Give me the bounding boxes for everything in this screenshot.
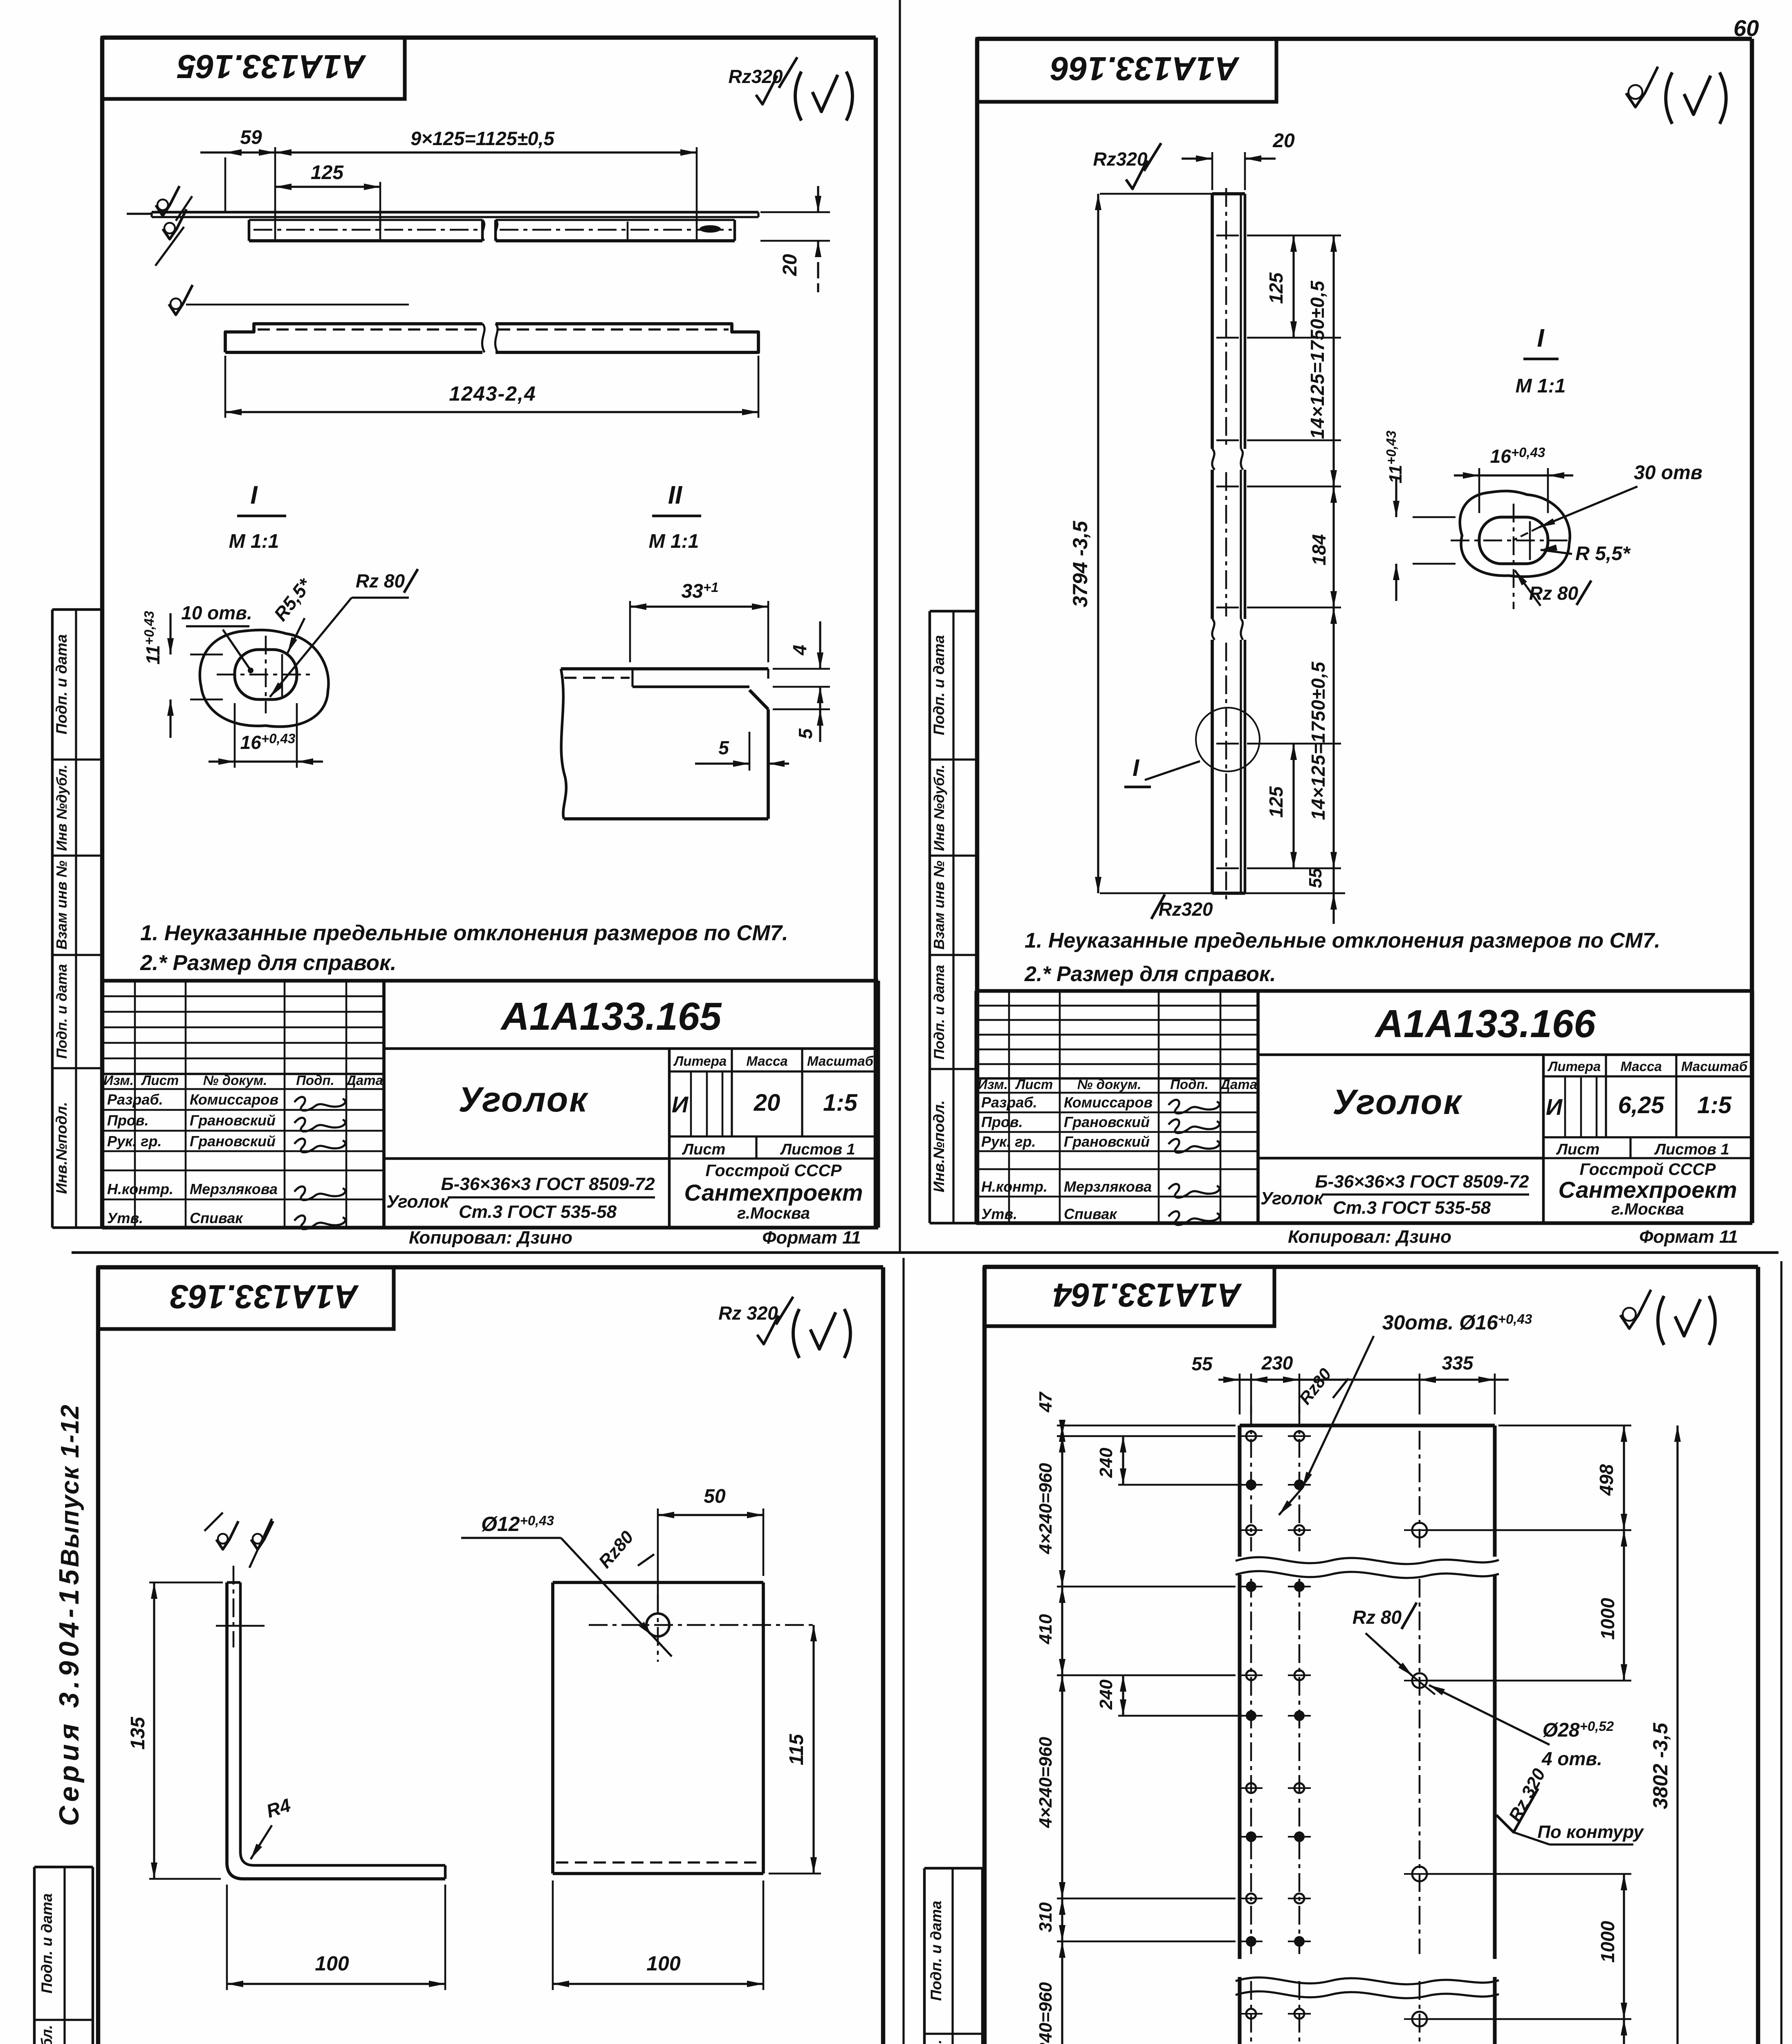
svg-text:Ст.3 ГОСТ 535-58: Ст.3 ГОСТ 535-58 xyxy=(1333,1198,1491,1218)
svg-text:4 отв.: 4 отв. xyxy=(1541,1748,1602,1769)
svg-text:Комиссаров: Комиссаров xyxy=(1064,1094,1153,1111)
svg-text:Разраб.: Разраб. xyxy=(981,1094,1037,1111)
svg-text:5: 5 xyxy=(795,728,816,739)
svg-text:50: 50 xyxy=(704,1486,726,1507)
svg-text:410: 410 xyxy=(1036,1614,1056,1645)
svg-text:Сантехпроект: Сантехпроект xyxy=(684,1180,863,1206)
svg-text:Лист: Лист xyxy=(1556,1141,1599,1158)
svg-text:Утв.: Утв. xyxy=(981,1206,1017,1222)
svg-text:№ докум.: № докум. xyxy=(1077,1077,1142,1092)
svg-text:5: 5 xyxy=(718,737,729,758)
svg-text:Б-36×36×3 ГОСТ 8509-72: Б-36×36×3 ГОСТ 8509-72 xyxy=(441,1174,655,1194)
svg-text:Н.контр.: Н.контр. xyxy=(107,1181,173,1197)
svg-text:Взам инв №: Взам инв № xyxy=(53,861,70,950)
svg-text:Изм.: Изм. xyxy=(103,1073,134,1088)
svg-text:230: 230 xyxy=(1261,1352,1293,1374)
svg-text:Разраб.: Разраб. xyxy=(107,1091,163,1108)
svg-text:6,25: 6,25 xyxy=(1618,1092,1665,1118)
svg-text:100: 100 xyxy=(315,1952,349,1975)
svg-text:Формат 11: Формат 11 xyxy=(762,1228,861,1248)
svg-text:240: 240 xyxy=(1096,1448,1116,1478)
svg-text:59: 59 xyxy=(240,127,262,148)
svg-text:240: 240 xyxy=(1096,1679,1116,1710)
svg-text:4×240=960: 4×240=960 xyxy=(1036,1982,1056,2044)
svg-text:R 5,5*: R 5,5* xyxy=(1575,543,1631,565)
svg-text:3794 -3,5: 3794 -3,5 xyxy=(1069,520,1092,607)
svg-text:Подп. и дата: Подп. и дата xyxy=(931,635,947,735)
svg-text:Комиссаров: Комиссаров xyxy=(190,1091,278,1108)
svg-text:14×125=1750±0,5: 14×125=1750±0,5 xyxy=(1308,661,1329,820)
svg-text:100: 100 xyxy=(646,1952,681,1975)
svg-text:Rz320: Rz320 xyxy=(1159,899,1213,920)
svg-text:1000: 1000 xyxy=(1597,1921,1618,1963)
svg-text:55: 55 xyxy=(1191,1353,1213,1374)
svg-text:Формат 11: Формат 11 xyxy=(1639,1227,1738,1247)
svg-text:Мерзлякова: Мерзлякова xyxy=(1064,1178,1152,1195)
svg-text:Сантехпроект: Сантехпроект xyxy=(1558,1177,1737,1203)
svg-text:Масштаб: Масштаб xyxy=(1681,1059,1748,1074)
svg-text:М 1:1: М 1:1 xyxy=(229,531,279,552)
svg-text:135: 135 xyxy=(127,1717,149,1750)
svg-text:20: 20 xyxy=(754,1089,780,1116)
svg-text:Серия 3.904-15: Серия 3.904-15 xyxy=(54,1565,85,1826)
svg-text:Лист: Лист xyxy=(141,1073,179,1088)
svg-text:4: 4 xyxy=(789,645,810,656)
svg-text:47: 47 xyxy=(1036,1391,1056,1412)
svg-text:10 отв.: 10 отв. xyxy=(181,602,252,623)
svg-text:Инв.№дубл.: Инв.№дубл. xyxy=(38,2025,55,2044)
svg-text:Листов 1: Листов 1 xyxy=(780,1141,855,1158)
svg-text:Дата: Дата xyxy=(345,1073,383,1088)
svg-text:По контуру: По контуру xyxy=(1537,1822,1644,1842)
svg-text:Грановский: Грановский xyxy=(190,1133,276,1150)
svg-text:А1А133.163: А1А133.163 xyxy=(170,1278,359,1315)
svg-text:Инв.№подл.: Инв.№подл. xyxy=(53,1102,70,1194)
svg-text:20: 20 xyxy=(779,254,801,276)
svg-text:9×125=1125±0,5: 9×125=1125±0,5 xyxy=(410,128,555,149)
svg-text:И: И xyxy=(1546,1094,1563,1120)
svg-text:Взам инв №: Взам инв № xyxy=(931,861,947,950)
svg-text:II: II xyxy=(668,481,683,509)
svg-text:Спивак: Спивак xyxy=(1064,1206,1117,1222)
svg-text:Изм.: Изм. xyxy=(978,1077,1008,1092)
svg-text:1000: 1000 xyxy=(1597,1598,1618,1640)
svg-text:Утв.: Утв. xyxy=(107,1210,143,1226)
svg-text:Спивак: Спивак xyxy=(190,1210,243,1226)
svg-text:I: I xyxy=(1133,755,1140,781)
svg-text:Подп. и дата: Подп. и дата xyxy=(53,634,70,734)
svg-text:Инв.№подл.: Инв.№подл. xyxy=(931,1100,947,1192)
svg-text:Мерзлякова: Мерзлякова xyxy=(190,1181,278,1197)
svg-text:4×240=960: 4×240=960 xyxy=(1036,1737,1056,1828)
svg-text:Рук. гр.: Рук. гр. xyxy=(981,1133,1036,1150)
svg-text:А1А133.165: А1А133.165 xyxy=(177,48,366,85)
svg-text:Пров.: Пров. xyxy=(981,1114,1023,1130)
svg-text:Инв.№дубл.: Инв.№дубл. xyxy=(928,2040,944,2044)
svg-text:Масштаб: Масштаб xyxy=(807,1053,874,1069)
svg-text:Выпуск 1-12: Выпуск 1-12 xyxy=(56,1404,84,1567)
svg-text:Копировал: Дзино: Копировал: Дзино xyxy=(409,1228,572,1248)
svg-text:Литера: Литера xyxy=(1548,1059,1601,1074)
svg-text:I: I xyxy=(250,481,258,509)
svg-text:Инв №дубл.: Инв №дубл. xyxy=(54,764,70,851)
svg-text:Подп.: Подп. xyxy=(296,1073,334,1088)
svg-text:г.Москва: г.Москва xyxy=(1611,1200,1684,1218)
svg-text:Подп. и дата: Подп. и дата xyxy=(931,965,947,1060)
svg-text:Литера: Литера xyxy=(673,1053,727,1069)
svg-text:Ст.3 ГОСТ 535-58: Ст.3 ГОСТ 535-58 xyxy=(459,1202,617,1222)
svg-text:Подп. и дата: Подп. и дата xyxy=(928,1901,944,2001)
svg-text:30 отв: 30 отв xyxy=(1634,462,1702,484)
svg-text:Масса: Масса xyxy=(1620,1059,1662,1074)
svg-text:Листов 1: Листов 1 xyxy=(1654,1141,1729,1158)
svg-text:Масса: Масса xyxy=(746,1053,787,1069)
svg-text:310: 310 xyxy=(1036,1902,1056,1932)
svg-text:Уголок: Уголок xyxy=(1332,1083,1463,1122)
svg-text:Подп. и дата: Подп. и дата xyxy=(38,1893,55,1993)
svg-text:Грановский: Грановский xyxy=(190,1112,276,1129)
svg-text:А1А133.165: А1А133.165 xyxy=(500,995,722,1038)
svg-text:1. Неуказанные предельные откл: 1. Неуказанные предельные отклонения раз… xyxy=(140,921,788,945)
svg-text:М 1:1: М 1:1 xyxy=(1516,375,1566,397)
svg-text:3802 -3,5: 3802 -3,5 xyxy=(1649,1722,1672,1809)
svg-text:Rz 320: Rz 320 xyxy=(718,1302,778,1324)
svg-text:335: 335 xyxy=(1442,1352,1474,1374)
svg-text:Госстрой СССР: Госстрой СССР xyxy=(706,1161,842,1180)
svg-text:Дата: Дата xyxy=(1219,1077,1257,1092)
svg-text:125: 125 xyxy=(1265,272,1287,304)
svg-text:№ докум.: № докум. xyxy=(203,1073,267,1088)
svg-text:М 1:1: М 1:1 xyxy=(649,531,699,552)
svg-text:Госстрой СССР: Госстрой СССР xyxy=(1580,1160,1716,1179)
svg-text:Подп. и дата: Подп. и дата xyxy=(54,964,70,1059)
svg-text:2.* Размер для справок.: 2.* Размер для справок. xyxy=(1024,962,1276,986)
svg-text:Rz 80: Rz 80 xyxy=(356,570,405,592)
svg-text:498: 498 xyxy=(1596,1464,1617,1496)
svg-text:125: 125 xyxy=(311,162,344,184)
svg-text:Грановский: Грановский xyxy=(1064,1133,1150,1150)
svg-text:Б-36×36×3 ГОСТ 8509-72: Б-36×36×3 ГОСТ 8509-72 xyxy=(1315,1172,1529,1192)
svg-text:125: 125 xyxy=(1265,786,1287,818)
svg-text:А1А133.166: А1А133.166 xyxy=(1374,1002,1596,1046)
svg-text:115: 115 xyxy=(786,1733,807,1765)
svg-text:А1А133.166: А1А133.166 xyxy=(1050,50,1240,87)
svg-text:Уголок: Уголок xyxy=(386,1192,450,1212)
svg-text:Копировал: Дзино: Копировал: Дзино xyxy=(1288,1227,1451,1247)
svg-text:Лист: Лист xyxy=(1015,1077,1053,1092)
svg-text:Н.контр.: Н.контр. xyxy=(981,1178,1047,1195)
svg-text:А1А133.164: А1А133.164 xyxy=(1053,1276,1242,1313)
svg-text:1243-2,4: 1243-2,4 xyxy=(449,382,536,405)
svg-text:Рук. гр.: Рук. гр. xyxy=(107,1133,162,1150)
svg-text:184: 184 xyxy=(1308,534,1330,566)
svg-text:г.Москва: г.Москва xyxy=(737,1204,810,1222)
svg-text:Уголок: Уголок xyxy=(458,1080,589,1119)
svg-text:Rz320: Rz320 xyxy=(729,66,783,87)
svg-text:Инв №дубл.: Инв №дубл. xyxy=(931,764,947,851)
svg-text:1. Неуказанные предельные откл: 1. Неуказанные предельные отклонения раз… xyxy=(1025,929,1660,953)
svg-text:1:5: 1:5 xyxy=(1697,1092,1732,1118)
svg-text:Подп.: Подп. xyxy=(1170,1077,1209,1092)
svg-text:И: И xyxy=(672,1091,689,1117)
svg-text:Rz 80: Rz 80 xyxy=(1352,1607,1402,1628)
svg-text:20: 20 xyxy=(1272,130,1295,152)
svg-text:2.* Размер для справок.: 2.* Размер для справок. xyxy=(140,951,397,975)
svg-text:Rz320: Rz320 xyxy=(1093,148,1148,170)
svg-text:1:5: 1:5 xyxy=(823,1089,858,1116)
svg-text:Пров.: Пров. xyxy=(107,1112,149,1129)
svg-text:Лист: Лист xyxy=(682,1141,725,1158)
svg-text:Грановский: Грановский xyxy=(1064,1114,1150,1130)
svg-text:14×125=1750±0,5: 14×125=1750±0,5 xyxy=(1307,280,1328,439)
svg-text:4×240=960: 4×240=960 xyxy=(1036,1463,1056,1554)
svg-text:I: I xyxy=(1537,324,1545,352)
svg-text:55: 55 xyxy=(1305,868,1325,888)
